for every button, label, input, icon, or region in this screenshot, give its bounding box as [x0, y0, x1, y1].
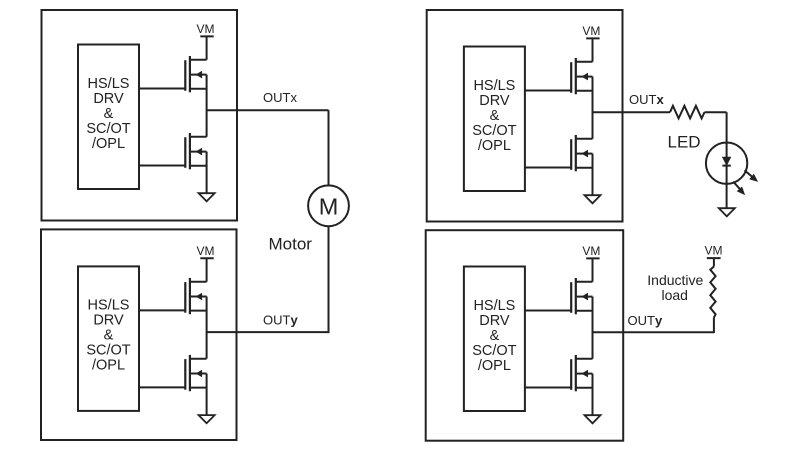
svg-text:DRV: DRV	[479, 93, 510, 109]
svg-text:VM: VM	[582, 244, 600, 258]
ground symbol (A)	[199, 193, 215, 201]
ground symbol (B)	[199, 415, 215, 423]
driver block B: controller label	[86, 298, 130, 374]
wire: D low-side source to ground	[592, 374, 594, 415]
svg-text:VM: VM	[197, 22, 215, 36]
svg-text:LED: LED	[668, 133, 701, 152]
wire: A OUTx output	[207, 109, 329, 111]
wire: D OUTy output	[593, 331, 715, 333]
transistor A high-side (NMOS)	[185, 56, 206, 92]
svg-text:OUTx: OUTx	[263, 90, 297, 105]
driver block A: outer box	[42, 10, 238, 221]
transistor B low-side (NMOS)	[185, 355, 206, 391]
transistor D low-side (NMOS)	[571, 355, 592, 391]
wire: inductor to OUTy	[713, 318, 715, 334]
wire: B OUTy output	[207, 331, 330, 333]
driver block A: HS/LS DRV controller box	[78, 45, 139, 190]
svg-text:/OPL: /OPL	[92, 136, 125, 152]
driver block C: controller label	[472, 78, 516, 154]
svg-text:SC/OT: SC/OT	[472, 343, 516, 359]
wire: through LED to ground	[726, 143, 728, 208]
LED D1 circle	[706, 143, 747, 184]
wire: B low-side gate	[139, 386, 185, 388]
ground symbol (LED)	[719, 208, 735, 216]
svg-text:VM: VM	[582, 24, 600, 38]
svg-text:/OPL: /OPL	[478, 358, 511, 374]
wire: B high-side gate	[139, 309, 185, 311]
svg-text:HS/LS: HS/LS	[473, 298, 515, 314]
wire: down to LED anode	[726, 112, 728, 142]
svg-text:VM: VM	[197, 244, 215, 258]
wire: C low-side source to ground	[592, 154, 594, 195]
wire: B half-bridge output node	[206, 297, 208, 359]
wire: C half-bridge output node	[592, 77, 594, 139]
wire: A high-side gate	[139, 88, 185, 90]
svg-text:HS/LS: HS/LS	[88, 76, 130, 92]
svg-text:/OPL: /OPL	[478, 138, 511, 154]
A VM rail + wire to high-side drain	[200, 36, 213, 59]
wire: D low-side gate	[525, 387, 571, 389]
wire: C high-side gate	[525, 90, 571, 92]
transistor A low-side (NMOS)	[185, 133, 206, 169]
svg-text:OUTx: OUTx	[629, 92, 664, 107]
svg-text:/OPL: /OPL	[92, 358, 125, 374]
svg-text:HS/LS: HS/LS	[473, 78, 515, 94]
driver block D: controller label	[472, 298, 516, 374]
wire: D high-side gate	[525, 310, 571, 312]
LED cathode bar	[722, 165, 730, 167]
wire: A low-side gate	[139, 165, 185, 167]
svg-text:SC/OT: SC/OT	[472, 123, 516, 139]
svg-text:VM: VM	[705, 244, 723, 258]
svg-text:&: &	[490, 108, 500, 124]
svg-text:&: &	[490, 328, 500, 344]
svg-text:DRV: DRV	[93, 313, 124, 329]
transistor D high-side (NMOS)	[571, 278, 592, 314]
LED diode triangle	[723, 157, 731, 165]
svg-text:HS/LS: HS/LS	[88, 298, 130, 314]
svg-text:&: &	[104, 328, 114, 344]
driver block B: HS/LS DRV controller box	[78, 266, 139, 411]
inductor L1 (inductive load)	[710, 267, 715, 318]
svg-text:DRV: DRV	[479, 313, 510, 329]
transistor C low-side (NMOS)	[571, 135, 592, 171]
B VM rail + wire to high-side drain	[200, 258, 213, 281]
wire: C low-side gate	[525, 167, 571, 169]
svg-text:load: load	[661, 287, 687, 303]
ground symbol (C)	[585, 195, 601, 203]
driver block A: controller label	[86, 76, 130, 152]
LED emission arrow 2	[733, 182, 745, 196]
LED emission arrow 1	[745, 170, 759, 182]
resistor R1 (LED series)	[670, 106, 705, 119]
driver block D: HS/LS DRV controller box	[464, 267, 525, 412]
svg-text:SC/OT: SC/OT	[86, 121, 130, 137]
wire: OUTx down to motor	[328, 110, 330, 185]
svg-text:M: M	[319, 194, 339, 220]
svg-text:&: &	[104, 106, 114, 122]
VM rail (inductive load)	[707, 258, 721, 266]
svg-text:Motor: Motor	[269, 234, 313, 253]
wire: B low-side source to ground	[206, 374, 208, 415]
motor M1 circle	[308, 185, 349, 226]
svg-text:SC/OT: SC/OT	[86, 343, 130, 359]
svg-text:OUTy: OUTy	[628, 313, 663, 328]
ground symbol (D)	[585, 415, 601, 423]
D VM rail + wire to high-side drain	[586, 258, 599, 281]
driver block C: outer box	[427, 10, 623, 222]
driver block C: HS/LS DRV controller box	[464, 47, 525, 192]
C VM rail + wire to high-side drain	[586, 38, 599, 61]
driver block D: outer box	[426, 230, 624, 441]
wire: A half-bridge output node	[206, 75, 208, 137]
svg-text:OUTy: OUTy	[263, 313, 298, 328]
wire: motor to OUTy	[328, 226, 330, 333]
wire: D half-bridge output node	[592, 297, 594, 359]
transistor C high-side (NMOS)	[571, 58, 592, 94]
wire: A low-side source to ground	[206, 152, 208, 193]
svg-text:Inductive: Inductive	[647, 272, 703, 288]
driver block B: outer box	[41, 229, 237, 440]
transistor B high-side (NMOS)	[185, 278, 206, 314]
wire: resistor to LED	[705, 111, 727, 113]
svg-text:DRV: DRV	[93, 91, 124, 107]
wire: C OUTx output	[593, 111, 671, 113]
